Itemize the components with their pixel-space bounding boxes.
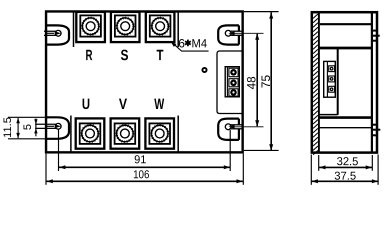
svg-text:W: W <box>154 96 165 113</box>
svg-text:75: 75 <box>261 75 273 88</box>
svg-text:R: R <box>85 47 92 64</box>
svg-text:106: 106 <box>133 169 149 181</box>
svg-text:V: V <box>119 96 127 113</box>
svg-text:91: 91 <box>134 154 146 166</box>
svg-text:5: 5 <box>22 124 34 130</box>
svg-text:S: S <box>120 47 128 64</box>
svg-text:37.5: 37.5 <box>334 171 356 183</box>
svg-text:48: 48 <box>246 76 258 89</box>
svg-text:6: 6 <box>178 36 185 50</box>
svg-text:32.5: 32.5 <box>337 156 359 168</box>
svg-text:U: U <box>82 96 90 113</box>
svg-text:T: T <box>156 47 163 64</box>
svg-text:11.5: 11.5 <box>2 117 14 138</box>
svg-text:M4: M4 <box>192 36 208 50</box>
